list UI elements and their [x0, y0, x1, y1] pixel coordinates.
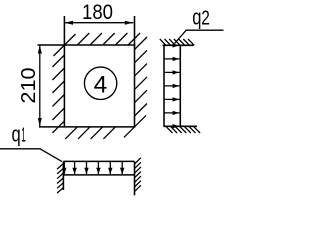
svg-text:2: 2 [201, 6, 210, 29]
svg-text:4: 4 [94, 71, 108, 98]
plate top hatching [54, 33, 141, 56]
dimension 210 arrows [38, 45, 42, 126]
q2 floor hatching [166, 127, 200, 134]
q2 ceiling hatching [160, 39, 194, 45]
plate bottom edge [39, 126, 135, 128]
svg-text:1: 1 [21, 124, 26, 147]
plate top edge [38, 16, 136, 127]
plate bottom hatching [65, 115, 146, 138]
svg-text:q: q [12, 122, 21, 147]
plate right edge [134, 16, 136, 127]
plate left hatching [52, 55, 64, 133]
q1 load arrows [62, 168, 124, 174]
plate left edge [63, 16, 65, 127]
q1 left wall hatching [57, 164, 63, 194]
q2 ceiling support line [163, 44, 194, 46]
q2 load arrows [173, 43, 179, 128]
dimension 210 line [39, 45, 41, 126]
q1 load rungs [64, 161, 122, 175]
q1 beam bottom line [63, 174, 134, 176]
svg-text:210: 210 [17, 67, 40, 103]
svg-text:180: 180 [82, 0, 113, 24]
svg-text:q: q [192, 4, 201, 29]
q1 left wall line [62, 161, 64, 190]
dimension 180 arrows [65, 21, 134, 25]
q1 beam top line [63, 161, 134, 195]
plate right hatching [135, 37, 148, 116]
dimension 180 line [65, 22, 134, 24]
q2 load tail line [164, 45, 180, 126]
circle label 4 [84, 67, 116, 99]
q2 load rungs [164, 45, 180, 126]
q1 right wall hatching [135, 158, 141, 192]
q1 right wall line [134, 161, 136, 195]
q2 loaded column edge [179, 45, 181, 126]
q1 leader line [0, 149, 62, 162]
q2 leader line [175, 30, 224, 43]
q2 floor support line [164, 125, 198, 127]
